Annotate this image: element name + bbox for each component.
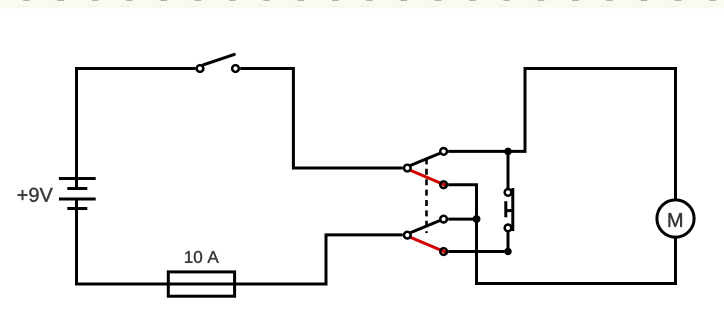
node junction lower throws link [473,215,481,223]
wire: pushbutton top to top throw wire [507,151,510,188]
motor M1 label [669,213,682,227]
node junction pushbutton bottom [504,248,512,256]
node junction pushbutton top [504,148,512,156]
battery B1 plate long top [59,177,96,180]
DPDT bottom pole common terminal [404,232,411,239]
wire: DPDT top pole lower throw down to bottom wire, to motor bottom [448,185,675,284]
DPDT bottom pole upper throw terminal [440,216,447,223]
battery stub [75,179,78,189]
DPDT top pole black lever [411,154,439,166]
top decorative strip [0,0,724,10]
DPDT top pole red lever [411,171,445,185]
wire: DPDT top pole upper throw to right loop top [448,69,675,199]
wire: DPDT bottom pole upper throw to junction [448,218,476,221]
pushbutton PB1 top terminal [505,189,512,196]
wire: DPDT bottom pole lower throw to pushbutton bottom [448,250,508,253]
label 10 A [185,251,219,263]
switch SW1 left terminal [197,65,204,72]
pushbutton PB1 contact bar [511,188,514,231]
wire: battery bottom through fuse to DPDT bottom-pole common [77,209,403,285]
DPDT top pole lower throw terminal [440,181,447,188]
DPDT bottom pole black lever [411,221,439,233]
switch SW1 lever [204,54,235,64]
fuse F1 [168,272,234,296]
pushbutton PB1 actuator cap [504,201,507,217]
label +9V [18,188,53,202]
battery plate short lower [67,207,87,210]
pushbutton PB1 actuator stem [505,209,513,212]
switch SW1 right terminal [232,65,239,72]
battery stub [75,199,78,209]
DPDT mechanical link (dashed) [425,158,428,233]
pushbutton PB1 bottom terminal [505,225,512,232]
battery plate long lower [59,198,96,201]
DPDT bottom pole red lever [411,238,445,252]
DPDT bottom pole lower throw terminal [440,248,447,255]
DPDT top pole common terminal [404,165,411,172]
DPDT top pole upper throw terminal [440,148,447,155]
wire: battery top to switch (left loop top-left) [77,69,196,180]
battery plate short [67,187,87,190]
wire: switch to DPDT top-pole common [240,69,402,169]
wire: pushbutton bottom lead [507,232,510,252]
motor M1 body [657,200,694,237]
